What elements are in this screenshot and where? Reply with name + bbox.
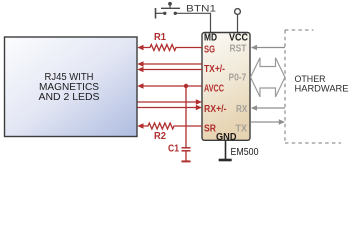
wire TX- xyxy=(143,69,203,71)
arrowhead RST xyxy=(251,45,257,50)
wire BTN1 to MD pin xyxy=(177,13,211,32)
junction dot AVCC/C1 node xyxy=(184,84,188,88)
svg-text:SG: SG xyxy=(204,45,215,56)
capacitor C1 plates xyxy=(182,147,191,149)
RJ45 connector module with magnetics xyxy=(5,37,138,137)
svg-text:RX: RX xyxy=(236,104,248,115)
IC U1 EM500 body xyxy=(202,33,250,141)
svg-text:HARDWARE: HARDWARE xyxy=(295,83,349,94)
arrowhead AVCC xyxy=(137,83,143,88)
svg-text:RX+/-: RX+/- xyxy=(204,104,227,115)
svg-text:R1: R1 xyxy=(154,32,166,43)
wire SR net with resistor R2 xyxy=(143,123,203,129)
svg-text:VCC: VCC xyxy=(229,33,248,44)
svg-text:C1: C1 xyxy=(168,144,179,155)
arrowhead SR xyxy=(137,123,143,128)
svg-text:TX: TX xyxy=(236,124,248,135)
arrowhead RX+ xyxy=(196,99,202,104)
arrowhead TX serial xyxy=(279,119,285,124)
wire AVCC net vertical to C1 xyxy=(185,86,187,147)
svg-text:SR: SR xyxy=(204,124,217,135)
arrowhead RX serial xyxy=(251,105,257,110)
svg-text:AVCC: AVCC xyxy=(204,84,224,95)
svg-text:R2: R2 xyxy=(154,131,166,142)
wire RST xyxy=(256,47,285,49)
wire SG net with resistor R1 xyxy=(143,45,203,51)
wire TX+ xyxy=(143,63,203,65)
wire TX serial xyxy=(251,121,279,123)
wire AVCC xyxy=(143,85,203,87)
arrowhead TX+ xyxy=(137,61,143,66)
arrowhead RX- xyxy=(196,105,202,110)
wire RX serial xyxy=(256,107,285,109)
ground symbol under IC GND xyxy=(219,141,232,161)
dashed box OTHER HARDWARE xyxy=(285,30,341,143)
ground bar below C1 xyxy=(182,160,191,162)
push button BTN1 xyxy=(156,2,181,19)
wire RX- xyxy=(138,107,197,109)
svg-text:P0-7: P0-7 xyxy=(229,73,247,84)
svg-text:AND 2 LEDS: AND 2 LEDS xyxy=(39,92,100,103)
svg-text:EM500: EM500 xyxy=(231,146,259,158)
P0-7 bus double arrow xyxy=(251,58,286,97)
wire VCC terminal to VCC pin xyxy=(237,15,239,33)
svg-text:MD: MD xyxy=(204,33,217,44)
VCC open terminal xyxy=(235,9,241,15)
arrowhead TX- xyxy=(137,67,143,72)
arrowhead SG wire xyxy=(137,45,143,50)
wire RX+ xyxy=(138,101,197,103)
svg-text:TX+/-: TX+/- xyxy=(204,64,225,75)
svg-text:RST: RST xyxy=(230,44,247,55)
